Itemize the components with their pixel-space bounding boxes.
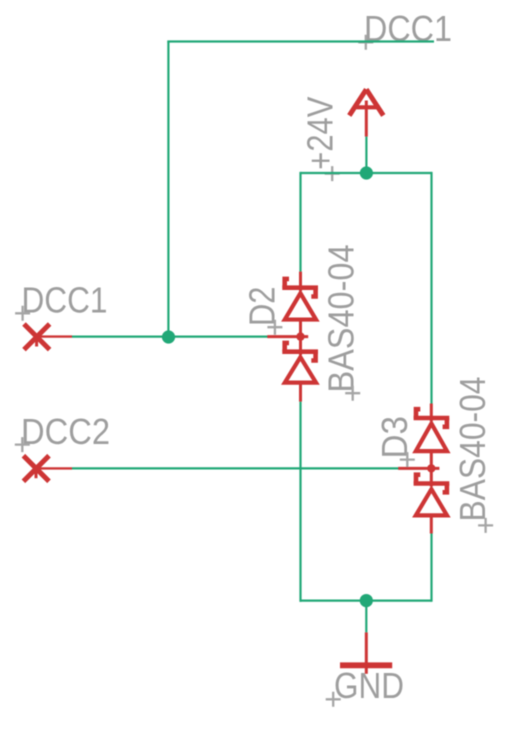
- wire DCC2 net to D3: [72, 467, 399, 469]
- net end cross DCC1: [24, 324, 50, 350]
- svg-text:DCC2: DCC2: [21, 411, 110, 452]
- anode triangle upper D2: [285, 293, 316, 319]
- cathode bar upper D2: [282, 285, 318, 290]
- svg-text:DCC1: DCC1: [364, 8, 452, 49]
- wire top rail: [301, 172, 432, 174]
- pin mid vertical segment D2: [299, 321, 302, 355]
- supply +24V arrow: [349, 89, 383, 136]
- pin 3 top segment D3: [430, 404, 433, 422]
- wire stub red DCC1: [38, 335, 72, 337]
- svg-text:DCC1: DCC1: [22, 279, 108, 320]
- pin junction dot D2: [296, 332, 304, 340]
- origin cross D2: [267, 320, 282, 335]
- anode triangle lower D3: [416, 489, 447, 515]
- wire stub red DCC2: [38, 467, 72, 469]
- text origin cross (+24V): [325, 166, 340, 181]
- wire DCC1 net to D2: [72, 336, 268, 338]
- origin cross BAS40-04 (D2): [345, 386, 360, 401]
- wire bottom rail: [300, 599, 432, 601]
- svg-text:D2: D2: [242, 287, 283, 327]
- pin 3 top segment D2: [299, 272, 302, 291]
- wire left column lower: [299, 402, 301, 602]
- origin cross D3: [400, 452, 415, 467]
- text origin cross (top DCC1): [358, 35, 373, 50]
- svg-text:BAS40-04: BAS40-04: [452, 377, 493, 522]
- svg-text:BAS40-04: BAS40-04: [321, 245, 362, 393]
- diode D2 (BAS40-04 dual schottky): [267, 272, 318, 402]
- origin cross BAS40-04 (D3): [478, 518, 493, 533]
- cathode bar lower D3: [414, 481, 450, 486]
- svg-text:GND: GND: [334, 665, 404, 706]
- wire DCC1 top horizontal: [167, 40, 434, 42]
- pin 2 bottom segment D2: [299, 384, 302, 402]
- wire right column upper: [430, 172, 432, 404]
- anode triangle lower D2: [285, 357, 316, 382]
- pin 2 bottom segment D3: [430, 517, 433, 534]
- wire DCC1 top vertical drop: [167, 42, 169, 338]
- svg-text:+24V: +24V: [300, 97, 341, 170]
- pin 1 horizontal D2: [267, 335, 308, 338]
- wire gnd drop green: [365, 601, 367, 633]
- ground symbol GND: [340, 632, 392, 673]
- text origin cross (DCC2): [15, 437, 30, 452]
- text origin cross (left DCC1): [15, 306, 30, 321]
- pin 1 horizontal D3: [398, 467, 439, 470]
- cathode bar lower D2: [282, 349, 318, 354]
- junction top rail: [360, 166, 373, 179]
- wire left column upper: [299, 172, 301, 272]
- diode D3 (BAS40-04 dual schottky): [398, 404, 449, 534]
- svg-text:D3: D3: [374, 416, 415, 459]
- pin mid vertical segment D3: [430, 453, 433, 487]
- net end cross DCC2: [23, 456, 49, 482]
- junction bottom rail: [360, 594, 373, 607]
- junction DCC1 net: [162, 330, 175, 343]
- wire supply drop: [365, 137, 367, 173]
- text origin cross (GND): [326, 692, 341, 707]
- wire right column lower: [430, 534, 432, 602]
- anode triangle upper D3: [416, 424, 447, 452]
- pin junction dot D3: [427, 464, 435, 472]
- cathode bar upper D3: [414, 416, 450, 421]
